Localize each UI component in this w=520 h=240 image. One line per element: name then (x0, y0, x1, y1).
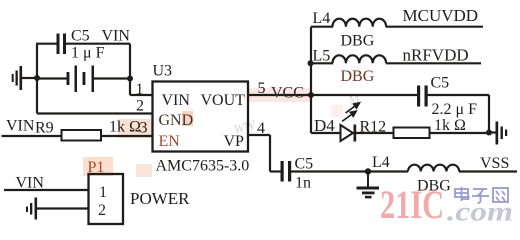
watermark band behind 5 VCC (248, 88, 312, 102)
wire C5 to corner (66, 43, 130, 45)
capacitor C5 (1uF) (57, 34, 67, 55)
svg-text:5: 5 (258, 80, 266, 97)
svg-text:R9: R9 (35, 120, 54, 137)
inductor L4 bottom (408, 165, 459, 172)
svg-text:VIN: VIN (162, 92, 191, 109)
svg-text:nRFVDD: nRFVDD (403, 46, 469, 65)
svg-text:P1: P1 (88, 159, 105, 176)
ground (bottom middle) (357, 172, 380, 199)
svg-text:21IC: 21IC (380, 182, 444, 227)
svg-text:L5: L5 (313, 48, 331, 65)
wire top to C5 (36, 43, 57, 45)
wire R12 to ground node (430, 132, 490, 134)
svg-text:VIN: VIN (6, 118, 35, 135)
svg-text:MCUVDD: MCUVDD (403, 6, 479, 25)
wire vertical VCC riser (310, 27, 312, 133)
node VCC junction (308, 92, 314, 98)
svg-text:1: 1 (136, 81, 144, 98)
svg-text:C5: C5 (71, 28, 90, 45)
wire node A to battery (37, 77, 67, 79)
svg-text:1n: 1n (295, 175, 311, 192)
wire C5 to right corner (428, 94, 490, 96)
wire bottom rail to pin 2 (37, 112, 153, 114)
capacitor C5 (2.2uF) (417, 86, 428, 107)
node bottom ground junction (365, 168, 371, 174)
ground (P1) (26, 198, 37, 220)
svg-text:2: 2 (136, 98, 144, 115)
svg-text:VCC: VCC (271, 85, 304, 102)
battery BT1 (67, 66, 95, 93)
watermark logo dianzi char (455, 187, 469, 201)
node L5 junction (308, 60, 314, 66)
svg-text:2.2 μ F: 2.2 μ F (432, 101, 478, 118)
resistor R9 (62, 130, 102, 141)
svg-text:2: 2 (98, 202, 106, 219)
wire to C5 1n (270, 170, 281, 172)
wire to right ground (489, 131, 496, 133)
wire C5 to L4 bottom (291, 170, 408, 172)
svg-text:VIN: VIN (102, 28, 131, 45)
wire VIN to P1 pin1 (4, 189, 89, 191)
wire ground to P1 pin2 (37, 207, 89, 209)
watermark patch left of AMC (136, 164, 152, 177)
svg-text:DBG: DBG (341, 33, 375, 50)
wire LED to R12 (356, 132, 394, 134)
svg-text:VSS: VSS (480, 155, 509, 172)
svg-text:3: 3 (140, 120, 148, 137)
wire right corner down (488, 95, 490, 133)
wire pin 4 stub (248, 134, 270, 136)
wire battery to junction (94, 77, 130, 79)
inductor L5 (333, 55, 387, 63)
ground (right) (496, 122, 508, 145)
wire pin 4 down (269, 135, 271, 172)
watermark patch near D4 (331, 105, 343, 117)
svg-text:1k Ω: 1k Ω (434, 117, 466, 134)
svg-text:U3: U3 (153, 63, 173, 80)
svg-text:AMC7635-3.0: AMC7635-3.0 (156, 158, 250, 175)
wire L4 row left (311, 26, 333, 28)
ground (top-left) (12, 66, 22, 90)
svg-text:D4: D4 (314, 116, 335, 135)
svg-text:4: 4 (257, 120, 265, 137)
svg-text:L4: L4 (313, 10, 331, 27)
wire R9 to pin 3 (101, 135, 153, 137)
node A junction (34, 75, 40, 81)
watermark band behind 1k-ohm 3 (118, 119, 152, 138)
watermark logo zi char (472, 189, 489, 203)
connector P1 body (89, 174, 124, 224)
LED D4 (341, 125, 357, 142)
svg-text:C5: C5 (295, 156, 314, 173)
svg-text:VP: VP (224, 133, 245, 150)
wire L5 to nRFVDD (386, 62, 481, 64)
capacitor C5 (1n) (281, 161, 292, 182)
svg-text:1: 1 (99, 184, 107, 201)
node battery junction (127, 76, 133, 82)
svg-text:C5: C5 (431, 75, 450, 92)
svg-text:GND: GND (159, 112, 194, 129)
wire L4 to VSS (459, 170, 517, 172)
wire corner down to pin1 (129, 44, 131, 95)
inductor L4 (333, 19, 387, 27)
svg-text:L4: L4 (372, 154, 390, 171)
wire ground to node A (22, 77, 37, 79)
watermark patch on GND D (182, 111, 193, 126)
svg-text:VOUT: VOUT (201, 92, 246, 109)
LED arrow 2 (342, 111, 356, 121)
op-amp U3 body (153, 82, 249, 152)
wire L5 row left (311, 62, 333, 64)
wire vertical node A (36, 44, 38, 114)
resistor R12 (394, 128, 430, 139)
svg-text:DBG: DBG (341, 68, 375, 85)
watermark logo wang char (493, 188, 508, 202)
wire VIN to R9 (2, 135, 62, 137)
wire D4 branch left (311, 132, 341, 134)
svg-text:1 μ F: 1 μ F (71, 45, 105, 62)
node right ground junction (486, 130, 492, 136)
wire pin 1 (130, 94, 153, 96)
svg-text:POWER: POWER (130, 189, 190, 208)
watermark patch behind P1 (83, 157, 113, 176)
wire pin 5 VCC (248, 94, 417, 96)
wire L4 to MCUVDD (386, 26, 483, 28)
LED arrow 1 (346, 103, 360, 113)
svg-text:1k Ω: 1k Ω (109, 119, 141, 136)
svg-text:EN: EN (159, 133, 181, 150)
